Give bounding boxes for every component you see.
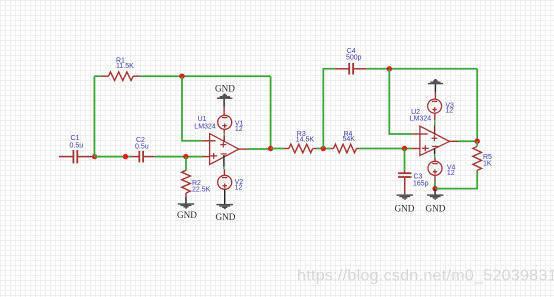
wire R3 to R4	[317, 148, 331, 150]
svg-text:GND: GND	[395, 203, 415, 213]
U1 inverting input lead with minus bar	[202, 140, 216, 142]
wire right feedback down to U2 output	[476, 69, 478, 141]
U1 plus mark (non-inverting input)	[210, 153, 217, 159]
svg-text:12: 12	[235, 126, 243, 133]
wire V3 top lead	[434, 92, 436, 99]
wire main line node A to C2	[95, 156, 131, 158]
wire node F down to U2 inverting input	[389, 69, 412, 134]
svg-text:https://blog.csdn.net/m0_52039: https://blog.csdn.net/m0_52039831	[297, 268, 554, 285]
ground (below V4)	[427, 194, 443, 199]
node on feedback line (tap to U1 inverting input)	[179, 74, 184, 79]
wire V1 to ground	[223, 99, 225, 107]
wire U1 output to feedback junction	[247, 148, 270, 150]
U1 positive supply mark	[220, 142, 226, 148]
U2 output lead	[450, 140, 459, 142]
svg-text:11.5K: 11.5K	[116, 63, 134, 70]
voltage source V1	[218, 115, 232, 129]
wire feedback line down to U1 output	[270, 76, 272, 148]
wire U1 negative supply to V2	[223, 155, 226, 175]
U1 negative supply mark	[221, 153, 227, 155]
svg-text:12: 12	[445, 108, 453, 115]
svg-text:GND: GND	[177, 210, 197, 220]
voltage source V2	[218, 175, 232, 189]
wire V2 to ground	[224, 189, 226, 204]
ground (below V2)	[217, 204, 233, 209]
node D (U1 output / feedback junction)	[268, 146, 273, 151]
resistor R4	[331, 144, 360, 153]
svg-text:LM324: LM324	[194, 123, 216, 130]
wire node H to ground	[434, 189, 436, 195]
resistor R1	[101, 72, 141, 81]
svg-text:165p: 165p	[413, 180, 429, 187]
U2 non-inverting input lead	[412, 148, 420, 150]
svg-text:0.5u: 0.5u	[70, 143, 84, 150]
node H (V4 / R5 ground junction)	[432, 186, 437, 191]
ground (below C3)	[397, 194, 413, 199]
svg-text:12: 12	[447, 170, 455, 177]
wire V4 bottom lead	[434, 175, 436, 182]
U2 negative supply mark	[432, 145, 438, 147]
wire top feedback line right segment	[141, 75, 271, 77]
svg-text:C1: C1	[71, 135, 80, 142]
wire U2 negative supply to V4	[434, 148, 436, 161]
wire node E up to C4	[323, 69, 335, 149]
voltage source V3	[428, 99, 442, 113]
ground (above V3)	[428, 79, 443, 84]
ground (above V1)	[217, 94, 233, 99]
resistor R3	[284, 144, 317, 153]
wire C4 to right feedback corner	[366, 68, 477, 70]
svg-text:1K: 1K	[483, 161, 492, 168]
wire R2 to ground	[185, 197, 187, 204]
wire C2 to U1 non-inverting input	[155, 156, 203, 158]
wire node D to R3	[271, 148, 284, 150]
wire feedback tap down to U1 inverting input	[182, 76, 202, 141]
svg-text:GND: GND	[215, 83, 235, 93]
node A (C1 right junction)	[92, 154, 97, 159]
svg-text:54K: 54K	[343, 136, 356, 143]
svg-text:GND: GND	[216, 212, 236, 222]
wire V3 to U2 positive supply	[434, 113, 436, 135]
wire V1 to U1 positive supply	[223, 129, 225, 141]
U1 output lead	[239, 148, 248, 150]
wire V4 lead to ground junction	[434, 182, 436, 189]
node B (junction left of C2)	[123, 154, 128, 159]
node E (R3/R4 junction, C4 tap)	[321, 146, 326, 151]
wire R4 to U2 non-inverting input	[359, 148, 412, 150]
svg-text:C3: C3	[414, 173, 423, 180]
wire U2 output to R5 junction	[458, 140, 477, 142]
capacitor C2	[131, 151, 155, 163]
voltage source V4	[428, 161, 442, 175]
ground (below R2)	[178, 203, 194, 208]
wire top feedback line left segment	[94, 75, 100, 77]
U1 non-inverting input lead	[203, 156, 210, 158]
op-amp U1	[210, 134, 239, 165]
U2 plus mark (non-inverting input)	[422, 145, 429, 151]
wire node A up to feedback line	[93, 76, 95, 156]
node F (C4 / U2 inverting tap junction)	[387, 66, 392, 71]
wire node I down to R5	[476, 141, 478, 146]
node C (junction at R2 / U1 + input)	[183, 154, 188, 159]
svg-text:500p: 500p	[346, 54, 362, 61]
resistor R5	[473, 146, 482, 172]
op-amp U2	[420, 126, 450, 156]
svg-text:0.5u: 0.5u	[135, 143, 149, 150]
node I (U2 output / R5 junction)	[475, 139, 480, 144]
U2 inverting input lead with minus bar	[412, 133, 428, 135]
wire R5 bottom to node H	[435, 172, 477, 189]
wire V3 to ground	[434, 84, 436, 92]
node G (C3 tap / U2 + input)	[402, 146, 407, 151]
wire node G down to C3	[404, 149, 406, 171]
wire V1 top lead	[223, 107, 225, 115]
svg-text:U1: U1	[198, 116, 207, 123]
capacitor C1	[59, 150, 94, 163]
capacitor C4	[335, 63, 366, 75]
svg-text:22.5K: 22.5K	[192, 187, 211, 194]
svg-text:14.5K: 14.5K	[296, 136, 315, 143]
capacitor C3	[398, 170, 411, 194]
svg-text:LM324: LM324	[410, 115, 432, 122]
svg-text:GND: GND	[426, 203, 446, 213]
svg-text:12: 12	[235, 184, 243, 191]
resistor R2	[182, 170, 191, 196]
wire node C down to R2	[185, 157, 187, 171]
U2 positive supply mark	[431, 135, 437, 141]
